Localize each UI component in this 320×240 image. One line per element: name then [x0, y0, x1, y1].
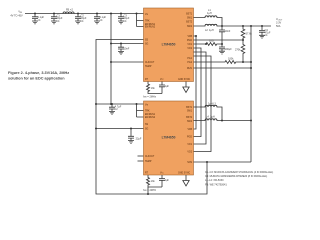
wire U2 TEMP stub — [138, 160, 144, 162]
wire U2 CLKOUT stub — [138, 155, 144, 157]
svg-text:LTM4650: LTM4650 — [162, 136, 176, 140]
inductor L4 — [194, 115, 223, 120]
svg-text:57.6k: 57.6k — [246, 33, 253, 36]
svg-text:LTM4650: LTM4650 — [162, 43, 176, 47]
svg-text:1µH: 1µH — [210, 115, 215, 118]
capacitor C3 10uF — [118, 14, 130, 23]
wire U2 RUN tie bracket — [136, 103, 144, 117]
wire VIN branch to U2 (vertical B) — [95, 14, 144, 106]
ground for C3 — [118, 21, 124, 24]
svg-text:EN/RUN1: EN/RUN1 — [145, 114, 156, 116]
node VOUT terminal label — [276, 18, 283, 28]
ferrite bead FB on VIN rail — [63, 9, 74, 14]
wire U2 output to trunk — [221, 120, 252, 122]
svg-text:BST2: BST2 — [186, 117, 192, 119]
svg-text:L1–L4: XFL5030: L1–L4: XFL5030 — [205, 179, 224, 182]
svg-text:TRK: TRK — [145, 20, 150, 22]
svg-text:FB: FB — [66, 9, 70, 12]
svg-text:fSW = 2MHz: fSW = 2MHz — [143, 189, 157, 192]
svg-text:C4: MURATA GRM32ER60J476ME20 (: C4: MURATA GRM32ER60J476ME20 (8 IN PARAL… — [205, 175, 267, 178]
capacitor C2 10uF — [75, 14, 87, 23]
wire VIN rail — [25, 13, 144, 15]
node VIN input terminal label — [10, 11, 23, 18]
notes component list — [205, 171, 273, 187]
svg-text:solution for an EDC applicatio: solution for an EDC application — [8, 77, 65, 81]
svg-text:SNS: SNS — [187, 162, 192, 164]
svg-text:100k: 100k — [228, 58, 234, 61]
wire CLKOUT stub from branch to U1 — [110, 61, 144, 63]
svg-text:VIN: VIN — [145, 105, 148, 107]
svg-text:VIN: VIN — [145, 14, 148, 16]
svg-text:50A: 50A — [276, 25, 281, 28]
svg-text:270k: 270k — [235, 49, 241, 52]
wire U1 RUN tie bracket — [137, 14, 144, 27]
ground for 22uF — [128, 141, 134, 144]
svg-text:4V TO 45V: 4V TO 45V — [10, 15, 23, 18]
svg-text:FB: WE 742792641: FB: WE 742792641 — [205, 183, 227, 186]
wire interstage bus 4 — [194, 56, 212, 152]
ground for 10nF — [118, 51, 124, 54]
svg-text:TRK: TRK — [145, 110, 150, 112]
capacitor 0.1uF input bypass 1 — [32, 14, 45, 23]
svg-text:VO1: VO1 — [187, 144, 192, 146]
svg-text:10nF: 10nF — [124, 47, 130, 50]
ground arrow below U1 — [183, 82, 189, 93]
svg-text:fSW = 2MHz: fSW = 2MHz — [143, 95, 157, 98]
op-amp U1 LTM4650 regulator module — [144, 8, 194, 82]
svg-text:VO1: VO1 — [187, 44, 192, 46]
svg-text:VO2: VO2 — [187, 48, 192, 50]
label fsw U2 — [143, 189, 157, 192]
svg-text:TEMP: TEMP — [145, 161, 152, 163]
svg-text:PG1: PG1 — [187, 58, 192, 60]
svg-text:22µF: 22µF — [136, 137, 142, 140]
svg-text:VIN: VIN — [18, 11, 22, 15]
ground for C2 — [75, 21, 81, 24]
wire sense return bottom — [194, 161, 252, 163]
resistor RT2 below U2 — [147, 175, 163, 187]
svg-text:PG2: PG2 — [187, 62, 192, 64]
ground for 0.1uF bypass 1 — [32, 21, 38, 24]
svg-text:EN/RUN2: EN/RUN2 — [145, 117, 156, 119]
svg-text:VFB: VFB — [188, 36, 193, 38]
ground for 100uF snubber — [219, 51, 225, 54]
svg-text:100µF: 100µF — [225, 48, 233, 51]
wire VOSNS row — [194, 67, 253, 69]
svg-text:1µF: 1µF — [165, 85, 170, 88]
svg-text:VO2: VO2 — [187, 152, 192, 154]
wire RT leg to bottom loop — [147, 187, 149, 195]
ground for 0.1uF bypass 2 — [94, 21, 100, 24]
svg-text:SW2: SW2 — [187, 121, 193, 123]
wire PLLIN line U1 to left trunk (vertical A) — [96, 40, 207, 195]
wire VOUT trunk vertical — [250, 26, 252, 162]
capacitor 1uF below U1 — [159, 82, 169, 94]
inductor L2 — [194, 24, 223, 32]
svg-text:Figure 2. 4-phase, 3.3V/16A, 2: Figure 2. 4-phase, 3.3V/16A, 2MHz — [8, 71, 69, 75]
capacitor 0.1uF input bypass 2 — [94, 14, 107, 23]
svg-text:1µF: 1µF — [165, 179, 170, 182]
capacitor 100uF snubber — [219, 44, 232, 51]
svg-text:1µH: 1µH — [208, 102, 213, 105]
ground for C4 — [259, 35, 265, 38]
ground for C1 — [51, 21, 57, 24]
resistor 10 ohm snubber — [194, 40, 224, 46]
svg-text:SW1: SW1 — [187, 18, 193, 20]
capacitor C4 47uF output — [259, 26, 271, 37]
capacitor 10nF on MODE line — [118, 43, 130, 52]
ground arrow below U2 — [183, 175, 189, 186]
svg-text:SG: SG — [145, 43, 149, 45]
svg-text:BST1: BST1 — [186, 13, 192, 15]
wire U2 feed row — [95, 128, 144, 130]
resistor RT1 below U1 — [147, 82, 163, 94]
resistor R bottom feedback 270k — [235, 38, 245, 62]
svg-text:1µH: 1µH — [207, 12, 212, 15]
svg-text:RUN: RUN — [187, 68, 192, 70]
svg-text:10Ω: 10Ω — [209, 40, 214, 43]
svg-text:SS: SS — [145, 39, 149, 41]
svg-text:C1–C3: MURATA GCM32ER71H106KA0: C1–C3: MURATA GCM32ER71H106KA03L (4 IN P… — [205, 171, 273, 174]
wire MODE stub from branch to U1 — [110, 43, 144, 45]
svg-text:BST1: BST1 — [186, 107, 192, 109]
capacitor 22uF at U2 lower left — [128, 128, 142, 141]
wire interstage bus 2 — [194, 48, 202, 137]
inductor L1 — [194, 9, 223, 26]
wire VOUT rail — [221, 25, 271, 27]
svg-text:TEMP: TEMP — [145, 66, 152, 68]
capacitor 10nF at output junction — [219, 26, 231, 44]
capacitor 1uF below U2 — [159, 175, 169, 187]
caption figure text — [8, 71, 69, 81]
svg-text:SG: SG — [145, 128, 149, 130]
svg-text:SW2: SW2 — [187, 26, 193, 28]
svg-text:EN/RUN1: EN/RUN1 — [145, 24, 156, 26]
wire VFB row to divider node — [194, 39, 245, 41]
svg-text:GND SYNC: GND SYNC — [178, 172, 190, 174]
svg-text:CLKOUT: CLKOUT — [145, 62, 155, 64]
ground for 4.7uF — [109, 111, 115, 114]
svg-text:VFB: VFB — [188, 129, 193, 131]
svg-text:EN/RUN2: EN/RUN2 — [145, 27, 156, 29]
svg-text:10nF: 10nF — [225, 30, 231, 33]
wire interstage bus 3 — [194, 52, 207, 144]
resistor 100k sense — [194, 58, 253, 64]
node junction dots on VIN rail — [34, 13, 138, 15]
inductor L3 — [194, 102, 223, 120]
svg-text:1µH: 1µH — [209, 29, 214, 32]
svg-text:SS: SS — [145, 124, 149, 126]
svg-text:BST2: BST2 — [186, 22, 192, 24]
svg-text:GND SYNC: GND SYNC — [178, 79, 190, 81]
svg-text:PGD: PGD — [187, 40, 192, 42]
svg-text:CLKOUT: CLKOUT — [145, 156, 155, 158]
svg-text:PGD: PGD — [187, 137, 192, 139]
op-amp U2 LTM4650 regulator module — [144, 101, 194, 175]
label fsw U1 — [143, 95, 157, 98]
wire interstage bus 1 — [194, 35, 198, 129]
svg-text:SW1: SW1 — [187, 111, 193, 113]
capacitor C1 10uF — [51, 14, 63, 23]
resistor R top feedback 57.6k — [241, 26, 252, 39]
capacitor 4.7uF at U2 VIN — [109, 103, 122, 111]
